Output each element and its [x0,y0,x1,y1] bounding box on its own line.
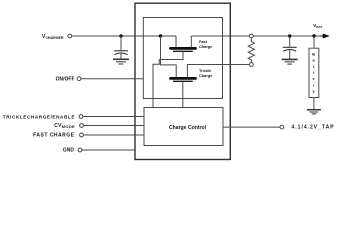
svg-text:B: B [312,53,315,57]
svg-text:e: e [313,77,315,81]
svg-text:FAST CHARGE: FAST CHARGE [33,133,75,139]
svg-text:VBAT: VBAT [313,23,322,29]
svg-text:Charge: Charge [199,73,213,78]
svg-text:GND: GND [63,148,75,154]
svg-text:Charge Control: Charge Control [169,125,207,131]
svg-text:TRICKLECHARGE/ENABLE: TRICKLECHARGE/ENABLE [3,114,75,119]
svg-text:Charge: Charge [199,44,213,49]
svg-text:CVMODE: CVMODE [54,123,75,129]
svg-text:4.1/4.2V_TAP: 4.1/4.2V_TAP [292,125,335,131]
svg-text:ON/OFF: ON/OFF [56,77,75,83]
